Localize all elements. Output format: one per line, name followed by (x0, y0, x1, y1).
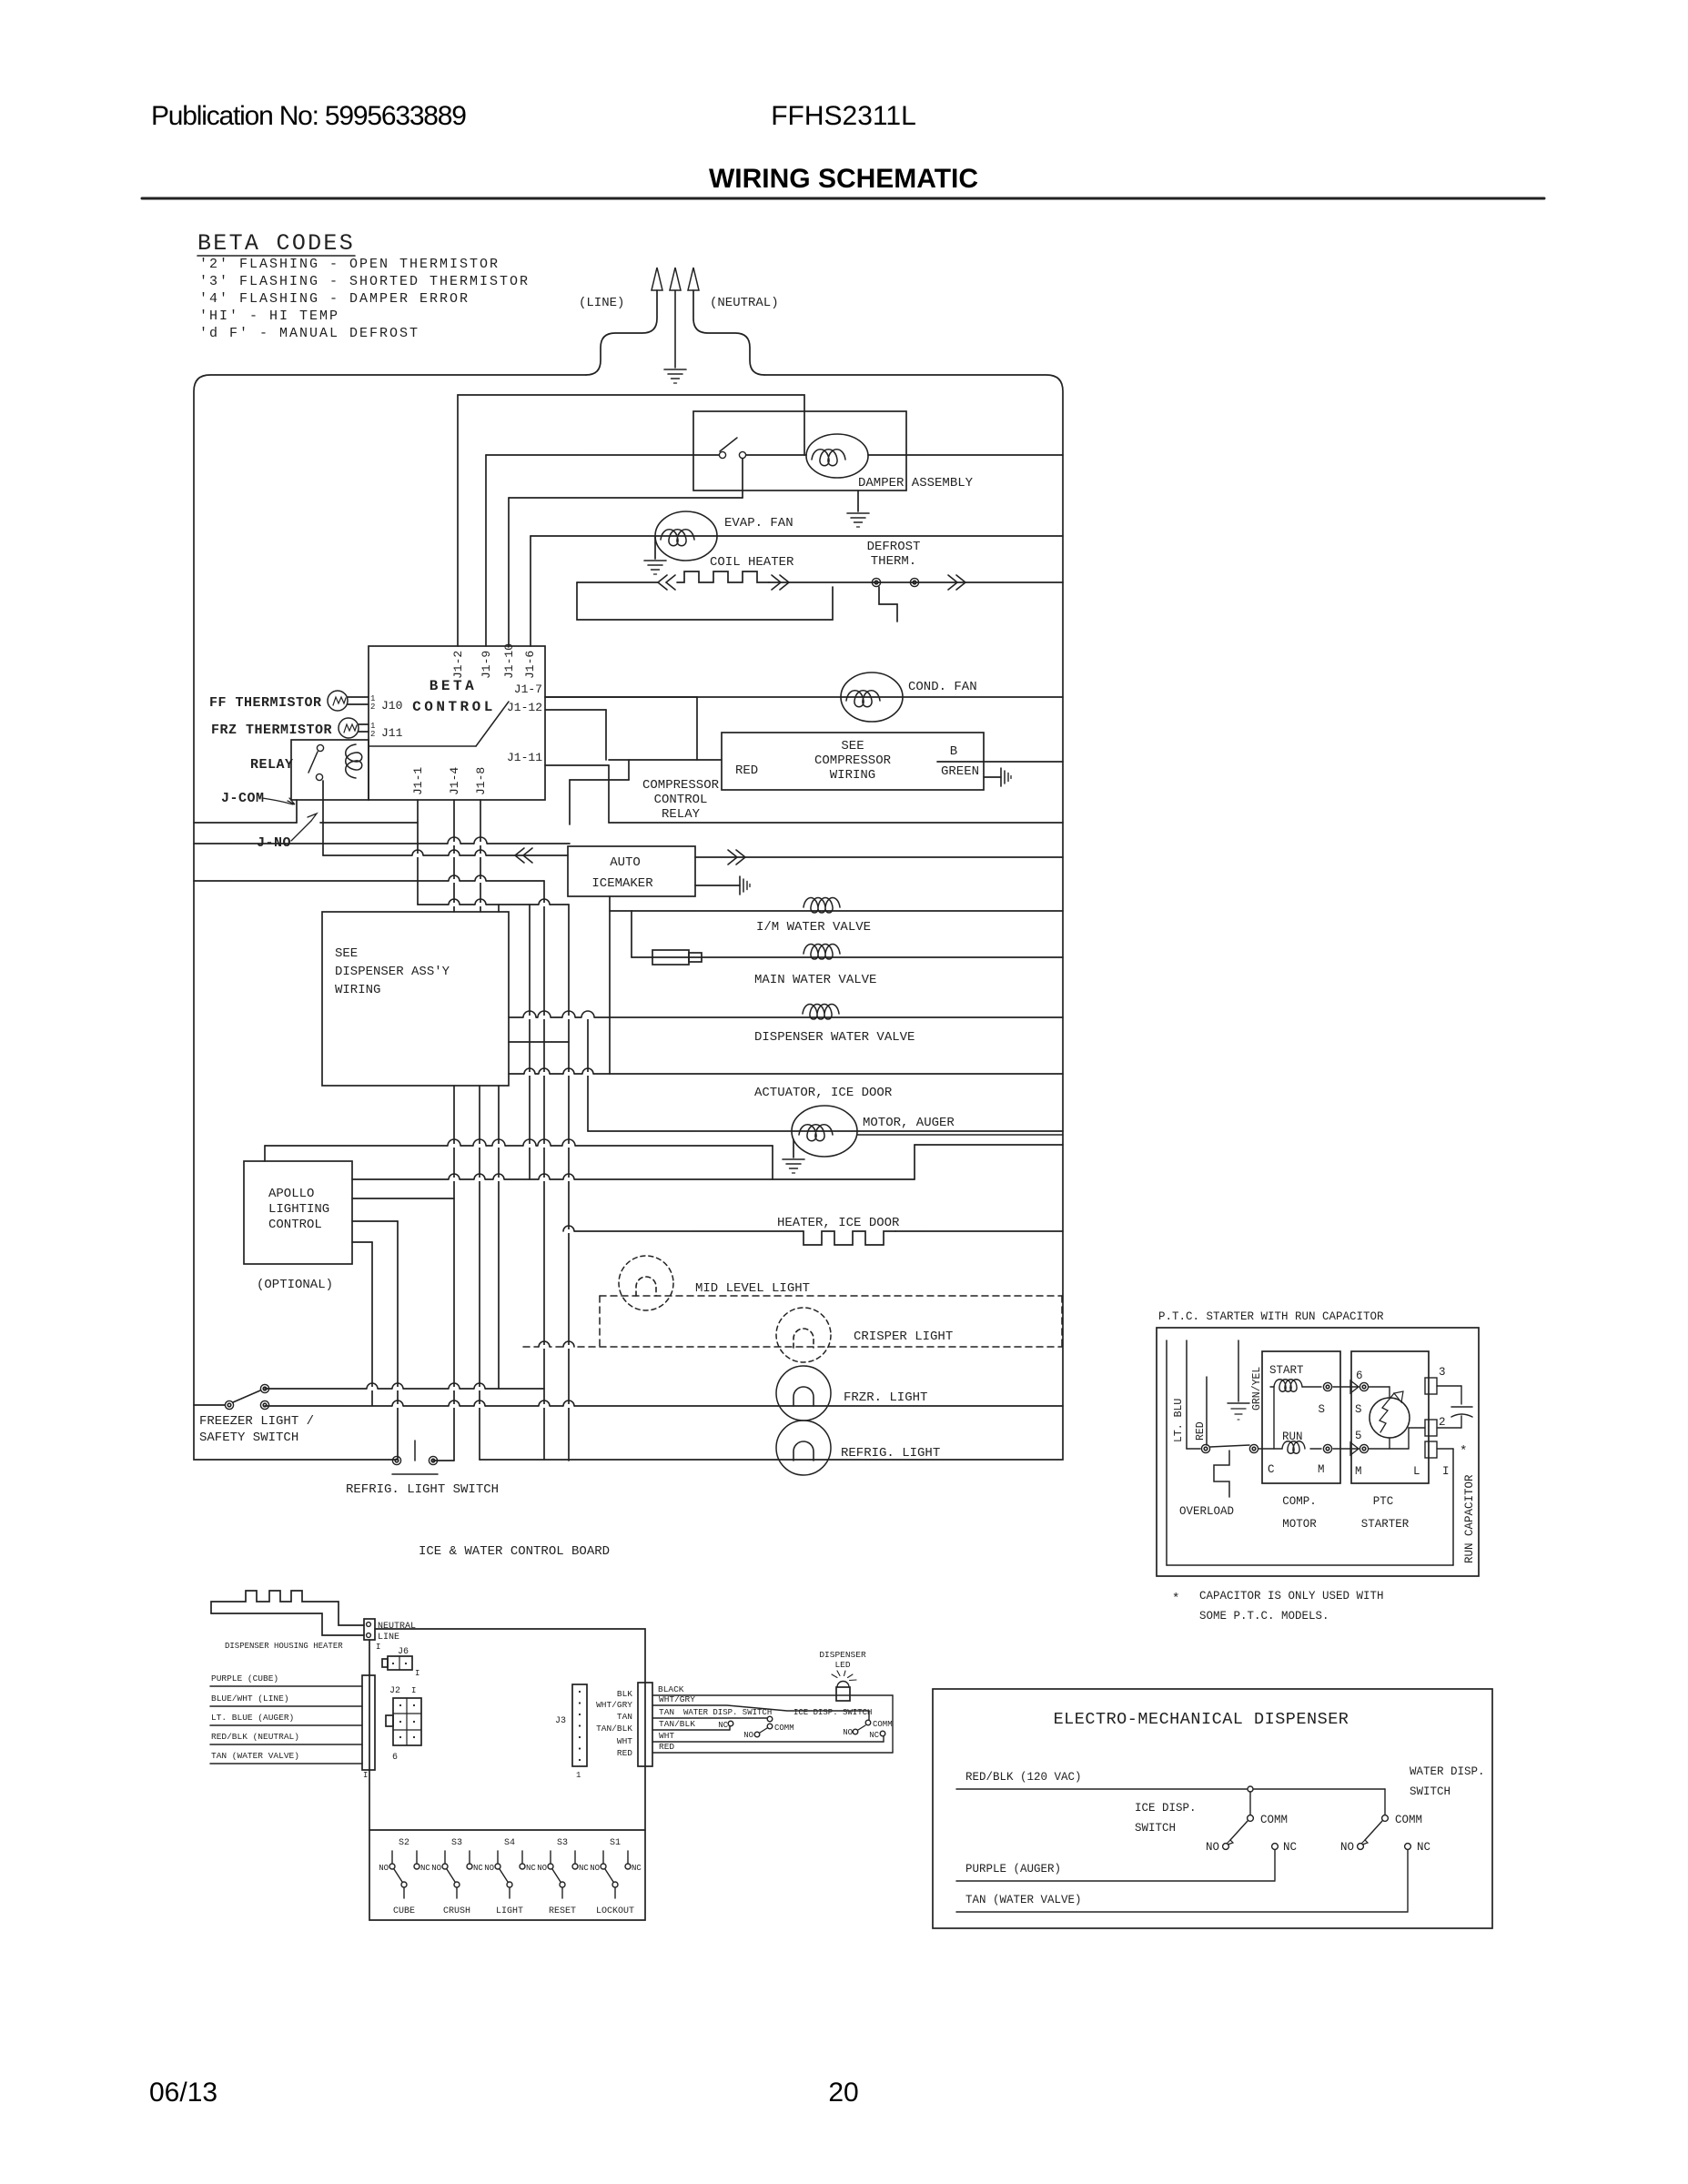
svg-text:J1-6: J1-6 (523, 651, 537, 679)
svg-text:J10: J10 (381, 699, 402, 713)
svg-text:TAN: TAN (617, 1712, 632, 1722)
svg-text:J1-4: J1-4 (448, 767, 461, 795)
svg-text:P.T.C. STARTER WITH RUN CAPACI: P.T.C. STARTER WITH RUN CAPACITOR (1158, 1310, 1384, 1323)
svg-text:NC: NC (526, 1864, 536, 1873)
svg-text:CUBE: CUBE (393, 1906, 415, 1916)
svg-text:I: I (363, 1771, 368, 1780)
svg-text:M: M (1318, 1463, 1325, 1476)
svg-text:'d F' - MANUAL DEFROST: 'd F' - MANUAL DEFROST (199, 326, 419, 341)
svg-text:ICE DISP. SWITCH: ICE DISP. SWITCH (793, 1708, 872, 1717)
svg-text:NC: NC (718, 1721, 728, 1730)
svg-text:2: 2 (1439, 1416, 1446, 1429)
svg-text:06/13: 06/13 (149, 2078, 217, 2108)
svg-text:S1: S1 (610, 1838, 621, 1848)
svg-text:NO: NO (1206, 1841, 1219, 1854)
svg-text:B: B (950, 744, 957, 759)
svg-text:RUN CAPACITOR: RUN CAPACITOR (1463, 1474, 1476, 1563)
svg-text:WHT/GRY: WHT/GRY (596, 1700, 632, 1710)
svg-text:BLUE/WHT (LINE): BLUE/WHT (LINE) (211, 1694, 289, 1704)
svg-text:DISPENSER HOUSING HEATER: DISPENSER HOUSING HEATER (225, 1642, 343, 1651)
svg-text:(NEUTRAL): (NEUTRAL) (710, 296, 779, 310)
svg-text:'HI' - HI TEMP: 'HI' - HI TEMP (199, 308, 339, 324)
svg-text:RED: RED (617, 1748, 632, 1758)
svg-text:SOME P.T.C. MODELS.: SOME P.T.C. MODELS. (1199, 1610, 1329, 1623)
svg-text:M: M (1355, 1465, 1362, 1478)
svg-text:CONTROL: CONTROL (654, 793, 708, 807)
svg-text:COIL HEATER: COIL HEATER (710, 555, 794, 570)
svg-text:J1-1: J1-1 (411, 767, 425, 795)
svg-text:6: 6 (1356, 1370, 1363, 1382)
svg-text:*: * (1172, 1592, 1179, 1606)
svg-text:RED/BLK (NEUTRAL): RED/BLK (NEUTRAL) (211, 1732, 299, 1742)
svg-text:FRZR. LIGHT: FRZR. LIGHT (844, 1390, 927, 1405)
svg-text:CRUSH: CRUSH (443, 1906, 470, 1916)
svg-text:MID LEVEL LIGHT: MID LEVEL LIGHT (695, 1281, 810, 1296)
svg-text:LIGHT: LIGHT (496, 1906, 523, 1916)
svg-text:LINE: LINE (378, 1633, 399, 1643)
svg-text:FRZ THERMISTOR: FRZ THERMISTOR (211, 723, 332, 738)
svg-text:FREEZER LIGHT /: FREEZER LIGHT / (199, 1414, 314, 1429)
svg-text:LED: LED (834, 1660, 850, 1670)
svg-text:NC: NC (1283, 1841, 1297, 1854)
svg-text:Publication No: 5995633889: Publication No: 5995633889 (151, 101, 466, 131)
svg-text:TAN/BLK: TAN/BLK (659, 1719, 695, 1729)
svg-text:COMP.: COMP. (1282, 1495, 1317, 1508)
svg-text:6: 6 (392, 1753, 398, 1763)
svg-text:S: S (1318, 1403, 1325, 1416)
svg-text:MOTOR, AUGER: MOTOR, AUGER (863, 1116, 955, 1130)
svg-text:WHT: WHT (659, 1731, 674, 1741)
svg-text:NC: NC (473, 1864, 483, 1873)
svg-text:BLK: BLK (617, 1689, 632, 1699)
svg-text:CRISPER LIGHT: CRISPER LIGHT (854, 1330, 953, 1344)
svg-text:FF THERMISTOR: FF THERMISTOR (209, 695, 322, 711)
svg-text:NC: NC (1417, 1841, 1430, 1854)
svg-text:LT. BLUE (AUGER): LT. BLUE (AUGER) (211, 1713, 294, 1723)
svg-text:LOCKOUT: LOCKOUT (596, 1906, 634, 1916)
svg-text:20: 20 (828, 2078, 858, 2108)
svg-text:BLACK: BLACK (658, 1684, 684, 1694)
svg-text:I: I (411, 1686, 416, 1695)
svg-text:RELAY: RELAY (250, 757, 294, 773)
svg-text:COMM: COMM (1395, 1814, 1422, 1826)
svg-text:WIRING: WIRING (335, 983, 380, 997)
svg-text:I: I (1442, 1465, 1450, 1478)
svg-text:S4: S4 (504, 1838, 515, 1848)
svg-text:WHT: WHT (617, 1736, 632, 1746)
svg-text:WIRING: WIRING (830, 768, 875, 783)
svg-text:SEE: SEE (841, 739, 864, 753)
svg-text:THERM.: THERM. (871, 554, 916, 569)
svg-text:ELECTRO-MECHANICAL DISPENSER: ELECTRO-MECHANICAL DISPENSER (1054, 1710, 1349, 1729)
svg-text:SWITCH: SWITCH (1410, 1785, 1450, 1798)
svg-text:CONTROL: CONTROL (412, 699, 496, 715)
svg-text:*: * (1460, 1444, 1467, 1459)
svg-text:L: L (1413, 1465, 1420, 1478)
svg-text:I: I (376, 1643, 380, 1652)
svg-text:TAN: TAN (659, 1707, 674, 1717)
svg-text:S2: S2 (399, 1838, 409, 1848)
svg-text:S: S (1355, 1403, 1362, 1416)
svg-text:AUTO: AUTO (610, 855, 641, 870)
svg-text:COMPRESSOR: COMPRESSOR (814, 753, 892, 768)
svg-text:SEE: SEE (335, 946, 358, 961)
svg-text:LT. BLU: LT. BLU (1173, 1399, 1185, 1442)
svg-text:NO: NO (743, 1731, 753, 1740)
svg-text:NEUTRAL: NEUTRAL (378, 1622, 416, 1632)
svg-text:CONTROL: CONTROL (268, 1218, 322, 1232)
svg-text:NC: NC (632, 1864, 642, 1873)
svg-text:GRN/YEL: GRN/YEL (1251, 1367, 1263, 1410)
svg-text:WATER DISP. SWITCH: WATER DISP. SWITCH (683, 1708, 772, 1717)
svg-text:HEATER, ICE DOOR: HEATER, ICE DOOR (777, 1216, 900, 1230)
svg-text:RED: RED (1195, 1421, 1207, 1441)
svg-text:ICE DISP.: ICE DISP. (1135, 1802, 1197, 1815)
svg-text:DISPENSER WATER VALVE: DISPENSER WATER VALVE (754, 1030, 915, 1045)
svg-text:TAN (WATER VALVE): TAN (WATER VALVE) (965, 1894, 1082, 1906)
svg-text:2: 2 (370, 730, 375, 739)
svg-text:RED: RED (659, 1742, 674, 1752)
svg-text:REFRIG. LIGHT SWITCH: REFRIG. LIGHT SWITCH (346, 1482, 499, 1497)
svg-text:I: I (415, 1669, 419, 1678)
svg-text:PTC: PTC (1373, 1495, 1394, 1508)
svg-text:GREEN: GREEN (941, 764, 979, 779)
svg-text:SAFETY SWITCH: SAFETY SWITCH (199, 1431, 298, 1445)
svg-text:NO: NO (590, 1864, 600, 1873)
svg-text:DISPENSER: DISPENSER (819, 1650, 866, 1660)
svg-text:'4' FLASHING - DAMPER ERROR: '4' FLASHING - DAMPER ERROR (199, 291, 470, 307)
svg-text:PURPLE (AUGER): PURPLE (AUGER) (965, 1863, 1061, 1876)
svg-text:NC: NC (869, 1731, 879, 1740)
svg-text:NC: NC (420, 1864, 430, 1873)
svg-text:J1-11: J1-11 (507, 751, 542, 764)
svg-text:NC: NC (579, 1864, 589, 1873)
svg-text:EVAP. FAN: EVAP. FAN (724, 516, 793, 531)
svg-text:APOLLO: APOLLO (268, 1187, 314, 1201)
svg-text:BETA: BETA (430, 678, 477, 694)
svg-text:WATER DISP.: WATER DISP. (1410, 1765, 1485, 1778)
svg-text:S3: S3 (557, 1838, 568, 1848)
svg-text:J3: J3 (555, 1716, 566, 1726)
svg-text:WHT/GRY: WHT/GRY (659, 1694, 695, 1704)
svg-text:J1-8: J1-8 (474, 767, 488, 795)
svg-text:2: 2 (370, 703, 375, 712)
svg-text:COMM: COMM (1260, 1814, 1288, 1826)
svg-text:J1-2: J1-2 (451, 651, 465, 679)
svg-text:LIGHTING: LIGHTING (268, 1202, 329, 1217)
svg-text:J11: J11 (381, 726, 403, 740)
svg-text:COND. FAN: COND. FAN (908, 680, 977, 694)
svg-text:1: 1 (576, 1771, 581, 1780)
svg-text:RED: RED (735, 763, 758, 778)
svg-text:3: 3 (1439, 1366, 1446, 1379)
svg-text:'2' FLASHING - OPEN THERMISTOR: '2' FLASHING - OPEN THERMISTOR (199, 257, 500, 272)
svg-text:DEFROST: DEFROST (867, 540, 921, 554)
svg-text:MAIN WATER VALVE: MAIN WATER VALVE (754, 973, 876, 987)
svg-text:J1-9: J1-9 (480, 651, 493, 679)
svg-text:J1-10: J1-10 (502, 643, 516, 679)
svg-text:NO: NO (843, 1728, 853, 1737)
svg-text:ACTUATOR, ICE DOOR: ACTUATOR, ICE DOOR (754, 1086, 893, 1100)
svg-text:MOTOR: MOTOR (1282, 1518, 1317, 1531)
svg-text:NO: NO (537, 1864, 547, 1873)
svg-text:START: START (1269, 1364, 1304, 1377)
svg-text:(OPTIONAL): (OPTIONAL) (257, 1278, 333, 1292)
svg-text:REFRIG. LIGHT: REFRIG. LIGHT (841, 1446, 940, 1461)
svg-text:RED/BLK (120 VAC): RED/BLK (120 VAC) (965, 1771, 1082, 1784)
svg-text:RELAY: RELAY (662, 807, 701, 822)
svg-text:COMM: COMM (873, 1720, 893, 1729)
svg-text:CAPACITOR IS ONLY USED WITH: CAPACITOR IS ONLY USED WITH (1199, 1590, 1384, 1603)
svg-text:OVERLOAD: OVERLOAD (1179, 1505, 1234, 1518)
svg-text:STARTER: STARTER (1361, 1518, 1410, 1531)
svg-text:NO: NO (379, 1864, 389, 1873)
svg-text:BETA CODES: BETA CODES (197, 230, 355, 257)
svg-text:NO: NO (431, 1864, 441, 1873)
svg-text:DISPENSER ASS'Y: DISPENSER ASS'Y (335, 965, 450, 979)
svg-text:ICE & WATER CONTROL BOARD: ICE & WATER CONTROL BOARD (419, 1544, 610, 1559)
svg-text:ICEMAKER: ICEMAKER (591, 876, 653, 891)
svg-text:(LINE): (LINE) (579, 296, 624, 310)
svg-text:NO: NO (484, 1864, 494, 1873)
svg-text:S3: S3 (451, 1838, 462, 1848)
svg-text:DAMPER ASSEMBLY: DAMPER ASSEMBLY (858, 476, 974, 490)
svg-text:WIRING SCHEMATIC: WIRING SCHEMATIC (709, 164, 978, 194)
svg-text:J1-7: J1-7 (514, 682, 542, 696)
svg-text:J2: J2 (389, 1686, 400, 1696)
svg-text:'3' FLASHING - SHORTED THERMIS: '3' FLASHING - SHORTED THERMISTOR (199, 274, 530, 289)
svg-text:RESET: RESET (549, 1906, 576, 1916)
svg-text:NO: NO (1340, 1841, 1354, 1854)
svg-text:J1-12: J1-12 (507, 701, 542, 714)
svg-text:J-COM: J-COM (221, 791, 265, 806)
svg-text:PURPLE (CUBE): PURPLE (CUBE) (211, 1673, 278, 1683)
svg-text:FFHS2311L: FFHS2311L (771, 101, 916, 131)
svg-text:TAN (WATER VALVE): TAN (WATER VALVE) (211, 1751, 299, 1761)
svg-text:5: 5 (1355, 1430, 1362, 1442)
svg-text:COMM: COMM (774, 1724, 794, 1733)
svg-text:C: C (1268, 1463, 1275, 1476)
svg-text:COMPRESSOR: COMPRESSOR (642, 778, 720, 793)
svg-text:I/M WATER VALVE: I/M WATER VALVE (756, 920, 871, 935)
svg-text:SWITCH: SWITCH (1135, 1822, 1176, 1835)
svg-text:TAN/BLK: TAN/BLK (596, 1724, 632, 1734)
